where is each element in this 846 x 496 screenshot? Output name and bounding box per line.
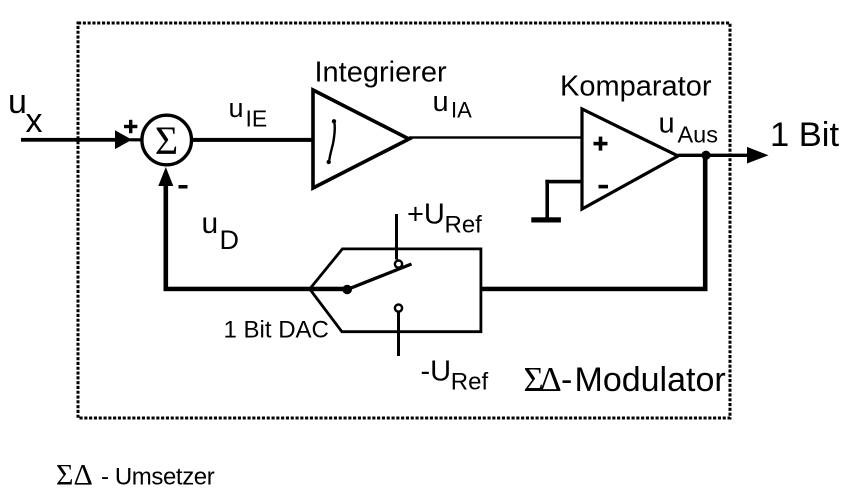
- svg-text:u: u: [659, 107, 675, 139]
- node label u_IA: [433, 86, 473, 122]
- comparator triangle U2: [582, 109, 678, 209]
- lower switch contact: [395, 305, 402, 312]
- label Sigma-Delta Modulator: [524, 361, 726, 399]
- svg-text:u: u: [202, 207, 219, 240]
- svg-text:1 Bit: 1 Bit: [770, 116, 839, 154]
- node: input label u_x: [8, 83, 43, 140]
- svg-text:Ref: Ref: [451, 369, 489, 396]
- svg-text:1 Bit DAC: 1 Bit DAC: [224, 317, 329, 344]
- comparator minus input label: [599, 185, 609, 189]
- wire: +Uref terminal: [395, 214, 398, 260]
- wire: -Uref terminal: [397, 313, 400, 357]
- node label u_D: [202, 207, 240, 255]
- svg-text:u: u: [433, 86, 449, 118]
- ground symbol: [531, 217, 561, 222]
- svg-text:- Umsetzer: - Umsetzer: [101, 464, 215, 491]
- label -U_Ref: [421, 356, 489, 396]
- svg-text:Σ: Σ: [155, 118, 178, 163]
- wire: ground to comparator minus input: [545, 180, 582, 220]
- minus sign at feedback input: [179, 185, 188, 189]
- node label u_Aus: [659, 107, 719, 147]
- svg-text:Komparator: Komparator: [560, 71, 712, 103]
- svg-text:Modulator: Modulator: [575, 361, 726, 399]
- svg-text:Ref: Ref: [445, 212, 483, 239]
- node: DAC common dot: [342, 285, 352, 295]
- comparator plus input label: [594, 137, 608, 151]
- svg-text:Aus: Aus: [678, 121, 719, 147]
- plus sign at summer input: [124, 120, 137, 133]
- wire: output arrow through boundary: [747, 147, 769, 164]
- wire: right feedback vertical: [703, 155, 708, 291]
- svg-text:Δ: Δ: [540, 361, 562, 399]
- wire: comparator output: [678, 154, 748, 157]
- dashed modulator boundary box: [78, 23, 730, 418]
- wire: summer to integrator: [191, 138, 313, 142]
- wire: left feedback horizontal into DAC common: [164, 287, 348, 292]
- wire: feedback arrow into summer bottom: [158, 167, 173, 291]
- svg-text:ΣΔ: ΣΔ: [56, 459, 93, 492]
- node: output junction dot: [701, 151, 710, 160]
- wire: input with arrow into summer: [21, 130, 141, 149]
- svg-text:IA: IA: [451, 97, 472, 122]
- node label u_IE: [229, 93, 268, 131]
- svg-text:+U: +U: [407, 199, 445, 231]
- 1-bit DAC body (hexagon): [310, 249, 481, 332]
- label +U_Ref: [407, 199, 482, 239]
- svg-text:u: u: [8, 83, 27, 121]
- svg-text:-U: -U: [421, 356, 452, 388]
- caption Sigma-Delta Umsetzer: [56, 459, 215, 492]
- upper switch contact: [395, 261, 402, 268]
- svg-text:u: u: [229, 93, 244, 123]
- wire: right feedback horizontal to DAC: [480, 287, 708, 292]
- wire: integrator to comparator: [409, 136, 582, 138]
- integral symbol in integrator: [327, 119, 337, 164]
- integrator triangle U1: [313, 90, 409, 188]
- svg-text:D: D: [220, 225, 240, 255]
- svg-text:IE: IE: [246, 105, 268, 131]
- summing junction circle: [142, 115, 192, 165]
- switch blade S1: [347, 264, 411, 290]
- svg-text:x: x: [26, 102, 43, 140]
- svg-text:Integrierer: Integrierer: [315, 57, 448, 89]
- svg-text:-: -: [561, 361, 572, 399]
